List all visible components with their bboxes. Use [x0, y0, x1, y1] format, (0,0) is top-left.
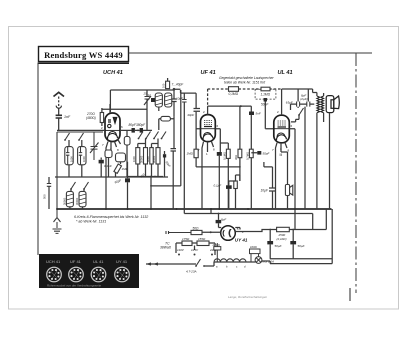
wire — [48, 177, 50, 209]
dark cap bottom — [226, 185, 232, 189]
svg-text:4,7-23A: 4,7-23A — [186, 270, 197, 274]
resistor 220 — [214, 247, 221, 250]
wire — [265, 102, 274, 129]
switch row1 left — [64, 133, 69, 141]
cap 50pF dark — [264, 98, 267, 102]
svg-text:40pF: 40pF — [187, 113, 194, 117]
arrows mains — [146, 262, 158, 265]
wires elcaps — [270, 230, 332, 259]
svg-text:Gegentakt geschaltete Lautspre: Gegentakt geschaltete Lautsprecher — [219, 76, 275, 80]
wire corner down — [312, 214, 314, 230]
grid resistor 270 — [100, 108, 103, 126]
dark cap left — [99, 160, 104, 164]
speaker — [326, 96, 339, 113]
svg-text:0,1µF: 0,1µF — [214, 184, 222, 188]
svg-text:5nF: 5nF — [256, 112, 261, 116]
svg-text:50Ω: 50Ω — [193, 226, 200, 230]
switch row2 — [70, 182, 75, 190]
svg-text:38Watt: 38Watt — [160, 246, 172, 250]
svg-text:8µF: 8µF — [221, 218, 226, 222]
selector dots — [178, 254, 180, 256]
antenna chevron — [54, 92, 65, 96]
cap 80pF dark — [132, 128, 135, 133]
cap right — [171, 149, 177, 151]
wire — [146, 262, 214, 266]
electrolytic 50uF left — [267, 241, 273, 244]
IF coil 4 — [156, 148, 160, 164]
wire avc row — [55, 176, 168, 178]
svg-text:50pF: 50pF — [263, 152, 270, 156]
cap 15pF on col — [182, 100, 187, 103]
wire osc column — [168, 78, 174, 116]
wire stub — [210, 209, 212, 214]
mains switch — [195, 259, 200, 267]
svg-text:30000: 30000 — [63, 197, 67, 205]
svg-text:380pF: 380pF — [136, 123, 146, 127]
speaker wire down — [329, 113, 331, 209]
top frame wire — [129, 52, 373, 54]
coil L4 — [79, 191, 86, 206]
wire — [135, 129, 152, 131]
wire antenna down — [56, 132, 58, 209]
dashed option box with resistor 1,1M — [255, 87, 276, 99]
wires cols — [219, 106, 257, 209]
junction — [137, 130, 139, 132]
svg-text:0,7MΩ: 0,7MΩ — [245, 152, 249, 160]
svg-text:0,1MΩ: 0,1MΩ — [229, 92, 239, 96]
svg-text:(2,1kΩ): (2,1kΩ) — [276, 237, 286, 241]
cathode wire right — [235, 228, 326, 232]
dark cap right — [257, 151, 261, 155]
title box Rendsburg WS 4449 — [38, 47, 129, 64]
svg-text:Röhrensockel von der Verdrahtu: Röhrensockel von der Verdrahtungsseite — [47, 284, 102, 288]
svg-text:UY 41: UY 41 — [235, 237, 248, 242]
svg-text:1MΩ: 1MΩ — [187, 152, 194, 156]
black photo inset — [39, 254, 139, 288]
wires to bus — [128, 139, 175, 210]
svg-text:30000: 30000 — [152, 155, 156, 163]
resistor diag 1M — [114, 164, 122, 173]
cap 8uF vert plates — [307, 102, 310, 107]
output transformer primary — [317, 96, 324, 113]
dial lamp — [255, 257, 262, 264]
svg-text:UL 41: UL 41 — [93, 259, 104, 264]
dark cap mid — [163, 154, 166, 157]
wire — [68, 165, 70, 177]
svg-text:6-Kreis-6-Flammensuperhet bis: 6-Kreis-6-Flammensuperhet bis Werk-Nr. 1… — [74, 215, 148, 219]
secondary bus line — [184, 213, 312, 215]
svg-text:155Ω: 155Ω — [198, 237, 206, 241]
rounded box 1M below osc — [161, 116, 171, 121]
osc coil left — [155, 93, 162, 107]
wire selector row — [176, 243, 215, 255]
black cap on col 219 — [217, 152, 222, 156]
svg-text:1000: 1000 — [82, 156, 86, 162]
electrolytic 50uF right — [290, 241, 296, 244]
wire — [216, 243, 218, 262]
svg-text:UF 41: UF 41 — [201, 70, 216, 76]
svg-text:UCH 41: UCH 41 — [103, 70, 123, 76]
resistor col C — [249, 149, 253, 158]
trimmer 7..40pF — [166, 81, 170, 88]
cap 380pF dark — [140, 128, 143, 133]
antenna lead dashes — [58, 97, 60, 107]
svg-text:110V: 110V — [177, 248, 185, 252]
resistor 1M — [194, 149, 198, 158]
cap 63pF vert plates — [297, 102, 300, 107]
wire from UF grid up — [207, 89, 209, 106]
dark cap mid — [125, 178, 130, 182]
box B below tube — [116, 153, 126, 162]
wire hv row — [291, 104, 315, 110]
wire resistor taps — [251, 254, 259, 262]
wires mid columns — [101, 158, 127, 210]
svg-text:4000: 4000 — [146, 156, 150, 162]
svg-text:175Ω: 175Ω — [182, 237, 190, 241]
trimmer arrow — [144, 96, 151, 105]
svg-text:UY 41: UY 41 — [116, 259, 128, 264]
right boundary dash-dot — [355, 53, 357, 293]
junction dots — [210, 208, 212, 210]
box A below tube — [105, 150, 112, 158]
svg-text:1000: 1000 — [132, 156, 136, 162]
wire osc col down — [165, 90, 181, 209]
photo inset background — [39, 254, 139, 288]
svg-text:10pF: 10pF — [176, 97, 183, 101]
svg-text:50µF: 50µF — [275, 244, 282, 248]
svg-text:30Ω: 30Ω — [234, 155, 238, 160]
electrolytic sym — [285, 185, 292, 196]
wires bottom — [229, 175, 240, 209]
pin wires UCH41 — [57, 104, 132, 209]
svg-text:100Ω: 100Ω — [250, 245, 258, 249]
left frame wire — [37, 63, 39, 256]
heater dropping humps — [214, 259, 246, 262]
svg-text:1000: 1000 — [69, 156, 73, 162]
wire — [102, 90, 147, 112]
UY41 rectifier tube — [221, 226, 236, 241]
svg-text:(480Ω): (480Ω) — [86, 116, 96, 120]
pin wires UL41 — [276, 89, 296, 230]
coupling hook — [56, 106, 61, 109]
svg-text:30000: 30000 — [75, 197, 79, 205]
rect bottom — [234, 181, 238, 189]
cap 10uF left — [269, 188, 276, 191]
osc coil right — [165, 93, 172, 107]
svg-text:Lange, Rundfunkschaltungen: Lange, Rundfunkschaltungen — [228, 295, 267, 299]
wire — [58, 108, 60, 115]
heater return line — [270, 263, 332, 265]
cap 40pF before UF grid — [194, 109, 201, 112]
switch below cap — [298, 108, 303, 116]
wire — [202, 231, 221, 233]
junction dots — [150, 176, 152, 178]
tube socket outlines — [47, 267, 130, 282]
wire top — [110, 89, 174, 91]
tuned circuit box L2/C2 — [78, 147, 86, 165]
resistor 2500 — [277, 227, 290, 231]
dark cap 750 — [151, 98, 155, 102]
ground symbol below bus — [53, 209, 62, 233]
IF coil 1 — [136, 148, 140, 164]
resistor 50ohm — [191, 230, 202, 234]
pin wires UF41 — [196, 106, 251, 209]
svg-text:30000: 30000 — [140, 155, 144, 163]
voltage selector resistors — [182, 241, 192, 246]
wire hook — [291, 107, 299, 122]
variable capacitor C2 — [90, 132, 99, 160]
svg-text:UF 41: UF 41 — [70, 259, 82, 264]
wire heater line under humps — [214, 261, 270, 264]
resistor col A — [226, 149, 230, 158]
IF coil 2 — [144, 148, 148, 164]
svg-text:125V: 125V — [191, 248, 199, 252]
svg-text:Rendsburg WS 4449: Rendsburg WS 4449 — [44, 50, 123, 60]
wire — [326, 209, 332, 264]
coil L3 — [66, 191, 73, 206]
resistor 0,1M on bias line — [229, 87, 239, 92]
resistor col B — [238, 149, 242, 158]
capacitor 1nF — [56, 115, 62, 118]
wire — [70, 189, 84, 209]
wires osc to grid — [147, 89, 196, 130]
wire col2 — [81, 140, 83, 147]
wire col 184 down — [183, 93, 185, 213]
anode wire — [282, 88, 313, 90]
svg-text:(2µF): (2µF) — [300, 97, 307, 101]
svg-text:50µF: 50µF — [298, 244, 305, 248]
svg-text:III: III — [280, 153, 283, 157]
wires below electro — [288, 107, 306, 209]
rounded box right of tube — [124, 137, 130, 146]
svg-text:100: 100 — [162, 83, 166, 88]
IF coil 3 — [150, 148, 153, 164]
main ground bus — [57, 208, 332, 210]
svg-text:0,1MΩ: 0,1MΩ — [222, 152, 226, 160]
svg-text:500: 500 — [43, 194, 47, 199]
cap 8uF black — [216, 220, 222, 223]
junction — [239, 166, 241, 168]
svg-text:1,1MΩ: 1,1MΩ — [261, 93, 271, 97]
bottom-right drop wire — [349, 288, 351, 301]
svg-text:10µF: 10µF — [261, 189, 269, 193]
wire — [264, 152, 288, 209]
wire — [81, 165, 83, 177]
wire corners from anode line — [298, 89, 313, 102]
cap on osc column — [171, 99, 176, 102]
svg-text:* ab Werk-Nr. 1131: * ab Werk-Nr. 1131 — [76, 220, 106, 224]
svg-text:UCH 41: UCH 41 — [46, 259, 61, 264]
resistor 100R above line — [250, 249, 261, 254]
junction node — [173, 88, 176, 91]
svg-text:7...40pF: 7...40pF — [172, 83, 185, 87]
switch contacts — [138, 132, 143, 140]
wire — [126, 130, 128, 177]
anode wire left — [166, 231, 191, 234]
socket pin dots — [48, 269, 127, 280]
svg-text:1nF: 1nF — [64, 115, 71, 119]
wire col1 — [68, 140, 70, 147]
svg-text:teilen ab Werk-Nr. 1151 fort: teilen ab Werk-Nr. 1151 fort — [224, 81, 266, 85]
tuned circuit box L1/C1 — [65, 147, 73, 165]
wire input row — [57, 131, 103, 133]
wire — [219, 214, 222, 228]
dark cap on col C — [249, 112, 254, 116]
svg-text:UL 41: UL 41 — [278, 70, 293, 76]
cap 500 on stub col — [47, 184, 51, 187]
socket inner lines — [51, 271, 125, 278]
transformer leads — [313, 93, 324, 210]
junction — [240, 105, 242, 107]
